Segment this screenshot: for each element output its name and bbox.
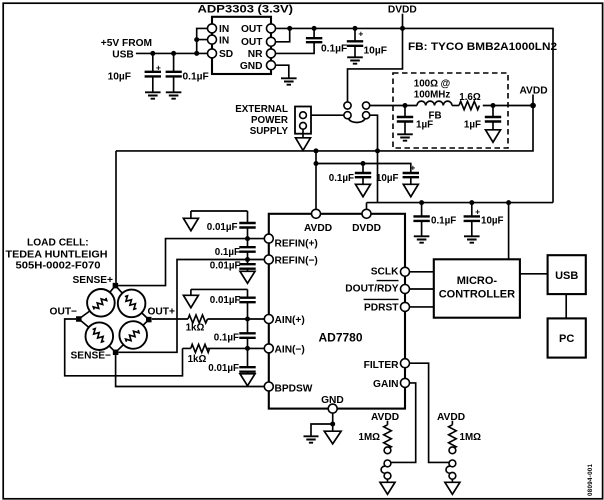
regulator U1 ADP3303 <box>198 4 294 74</box>
resistor R5 1Mohm <box>449 421 482 449</box>
bridge circle TL <box>87 289 115 317</box>
pin IN1 <box>208 24 217 33</box>
svg-text:DOUT/RDY: DOUT/RDY <box>345 284 398 295</box>
wire DVDD rail <box>275 28 553 202</box>
connector J1 external power <box>295 107 311 134</box>
svg-text:10µF: 10µF <box>108 72 131 83</box>
wire GAIN run <box>391 383 416 463</box>
junction dot AVDD rail left <box>314 148 319 153</box>
wire link bottom to AVDD rail <box>370 115 378 202</box>
wire micro power feed <box>508 203 510 260</box>
junction dot C5 <box>491 103 496 108</box>
capacitor C14 0.1uF ain diff <box>214 319 256 348</box>
junction dot C6 tap <box>361 161 366 166</box>
capacitor C1 10uF <box>108 53 161 91</box>
ground C13 triangle <box>183 295 198 307</box>
wire OUT2 join <box>275 28 290 41</box>
svg-text:USB: USB <box>112 50 134 61</box>
pin OUT2 <box>267 37 276 46</box>
ground C4 bars <box>397 134 413 140</box>
svg-text:FB: TYCO BMB2A1000LN2: FB: TYCO BMB2A1000LN2 <box>408 41 557 53</box>
ferrite bead FB <box>414 79 452 122</box>
wire GND pin down <box>332 413 334 431</box>
svg-text:0.1µF: 0.1µF <box>329 173 354 184</box>
svg-text:SCLK: SCLK <box>371 266 399 277</box>
pin SD <box>208 49 217 58</box>
wire right link to triangle <box>451 479 453 482</box>
wire J1 top to link <box>311 114 344 116</box>
wire SENSE- to BPDSW <box>116 355 265 386</box>
svg-text:DVDD: DVDD <box>352 223 381 234</box>
svg-text:1µF: 1µF <box>416 120 433 131</box>
mcu U3 MICRO-CONTROLLER <box>434 259 520 317</box>
ground C9 bars <box>464 236 480 242</box>
svg-text:OUT+: OUT+ <box>148 307 176 318</box>
svg-text:SENSE+: SENSE+ <box>73 275 114 286</box>
wire SCLK <box>409 271 434 273</box>
node EXTERNAL POWER SUPPLY label <box>235 104 288 137</box>
junction dot C9 tap <box>469 200 474 205</box>
svg-text:EXTERNAL: EXTERNAL <box>235 104 288 115</box>
svg-text:GAIN: GAIN <box>373 379 398 390</box>
wire +5V feed to SD <box>136 52 208 54</box>
pin SCLK <box>401 267 410 276</box>
svg-text:1.6Ω: 1.6Ω <box>459 92 481 103</box>
svg-text:REFIN(+): REFIN(+) <box>275 239 318 250</box>
wire AVDD decoupling line <box>316 164 411 173</box>
svg-text:+: + <box>475 206 480 216</box>
svg-text:TEDEA HUNTLEIGH: TEDEA HUNTLEIGH <box>6 249 108 260</box>
svg-text:OUT: OUT <box>241 24 263 35</box>
svg-text:+5V FROM: +5V FROM <box>101 38 152 49</box>
svg-text:08094-001: 08094-001 <box>587 463 594 496</box>
resistor R2 1k <box>188 344 210 364</box>
wire USB to PC <box>565 294 567 318</box>
wire excitation top to AVDD rail <box>115 151 117 283</box>
ground C12 triangle <box>240 271 255 283</box>
wire ADP GND to ground <box>275 65 289 78</box>
svg-text:0.01µF: 0.01µF <box>210 260 241 271</box>
pin DVDD <box>362 209 371 218</box>
pin BPDSW <box>264 382 273 391</box>
resistor R4 1Mohm <box>359 421 392 449</box>
svg-text:10µF: 10µF <box>376 173 399 184</box>
wire DVDD distribution line <box>367 202 554 204</box>
junction dot REFIN- <box>245 257 250 262</box>
bridge circle TR <box>118 290 146 318</box>
capacitor C15 0.01uF ain- to gnd <box>208 348 255 374</box>
svg-text:FILTER: FILTER <box>364 360 400 371</box>
node top bridge <box>113 283 119 289</box>
svg-text:+: + <box>358 29 363 39</box>
junction dot AIN- <box>245 346 250 351</box>
pin REFIN+ <box>264 234 273 243</box>
svg-text:SUPPLY: SUPPLY <box>250 126 289 137</box>
capacitor C11 0.1uF refin diff <box>215 239 256 260</box>
ground C15 triangle <box>240 374 255 386</box>
svg-text:NR: NR <box>248 49 263 60</box>
link LK1 pins <box>344 102 370 123</box>
svg-text:SENSE−: SENSE− <box>71 351 112 362</box>
svg-text:IN: IN <box>219 35 229 46</box>
svg-text:USB: USB <box>555 270 578 282</box>
svg-text:0.01µF: 0.01µF <box>208 363 239 374</box>
svg-text:AIN(+): AIN(+) <box>275 315 305 326</box>
capacitor C10 0.01uF refin+ to gnd <box>191 211 256 239</box>
svg-text:ADP3303 (3.3V): ADP3303 (3.3V) <box>198 4 294 16</box>
junction dot C4 <box>403 103 408 108</box>
wire left link to triangle <box>387 479 389 482</box>
junction dot C3 <box>353 26 358 31</box>
pin IN2 <box>208 35 217 44</box>
node +5V FROM USB label <box>101 38 152 61</box>
svg-text:100MHz: 100MHz <box>414 90 451 101</box>
svg-text:0.01µF: 0.01µF <box>207 222 238 233</box>
ground C3 bars <box>347 57 363 63</box>
svg-text:GND: GND <box>240 61 263 72</box>
svg-text:100Ω @: 100Ω @ <box>414 79 450 90</box>
ground C6 triangle <box>356 184 371 196</box>
svg-text:MICRO-: MICRO- <box>457 275 498 287</box>
junction dot NR cap <box>312 26 317 31</box>
svg-text:AVDD: AVDD <box>304 223 332 234</box>
bridge circle BL <box>86 322 114 350</box>
svg-text:CONTROLLER: CONTROLLER <box>439 289 515 301</box>
svg-text:AVDD: AVDD <box>437 412 465 423</box>
interface USB box <box>548 255 586 294</box>
svg-text:1MΩ: 1MΩ <box>359 432 381 443</box>
pin FILTER <box>401 359 410 368</box>
svg-text:10µF: 10µF <box>364 46 387 57</box>
junction dot AIN+ <box>245 317 250 322</box>
link left pins and switch <box>381 447 391 479</box>
wire SENSE+ to REFIN+ <box>118 239 264 286</box>
filter box dashed <box>393 73 508 148</box>
wire GND left branch <box>311 424 333 436</box>
svg-text:OUT−: OUT− <box>50 307 78 318</box>
bridge circle BR <box>119 321 147 349</box>
capacitor C13 0.01uF ain+ to gnd <box>191 289 256 319</box>
svg-text:505H-0002-F070: 505H-0002-F070 <box>16 260 101 271</box>
ground C1 bars <box>145 92 161 98</box>
junction dot REFIN+ <box>245 236 250 241</box>
svg-text:AVDD: AVDD <box>371 412 399 423</box>
svg-text:PC: PC <box>559 333 574 345</box>
junction dot DVDD rail <box>400 26 405 31</box>
junction dot C2 tap <box>171 51 176 56</box>
capacitor C9 10uF <box>464 203 504 236</box>
svg-text:1MΩ: 1MΩ <box>460 432 482 443</box>
capacitor C2 0.1uF <box>166 53 209 91</box>
pin OUT1 <box>267 24 276 33</box>
wire DVDD pin jog <box>366 203 368 210</box>
pin AIN+ <box>264 315 273 324</box>
junction dot AVDD <box>530 103 536 109</box>
svg-text:PDRST: PDRST <box>364 302 399 313</box>
junction dot IN2 branch <box>194 37 199 42</box>
capacitor C6 0.1uF <box>329 164 371 185</box>
wire DOUT <box>409 288 434 290</box>
wire FILTER run <box>409 363 449 462</box>
pin GAIN <box>401 378 410 387</box>
ground C5 triangle <box>486 130 501 142</box>
wire DVDD stub and link feed <box>348 14 403 102</box>
svg-text:IN: IN <box>219 24 229 35</box>
svg-text:0.01µF: 0.01µF <box>210 295 241 306</box>
capacitor NR 0.1uF <box>306 38 347 54</box>
node LOAD CELL label <box>6 238 108 272</box>
svg-text:1kΩ: 1kΩ <box>186 323 205 334</box>
node bottom bridge <box>113 350 119 356</box>
svg-text:0.1µF: 0.1µF <box>183 72 209 83</box>
svg-text:+: + <box>156 63 161 73</box>
svg-text:AIN(−): AIN(−) <box>275 345 305 356</box>
wire J1 bottom to triangle <box>302 129 304 138</box>
ground GND bars <box>304 436 319 442</box>
pin GND <box>328 404 337 413</box>
svg-text:1µF: 1µF <box>464 120 481 131</box>
wire IN branch vertical <box>197 28 208 53</box>
capacitor C5 1uF right <box>464 106 501 131</box>
ground C8 bars <box>414 236 430 242</box>
wire REFIN- run <box>118 260 264 353</box>
pin DOUT <box>401 285 410 294</box>
link right pins and switch <box>446 447 456 479</box>
adc U2 AD7780 <box>269 214 405 409</box>
svg-text:0.1µF: 0.1µF <box>214 332 239 343</box>
pin AIN- <box>264 344 273 353</box>
svg-text:AD7780: AD7780 <box>318 331 362 345</box>
junction dot OUT2 <box>287 26 292 31</box>
svg-text:0.1µF: 0.1µF <box>215 247 240 258</box>
svg-text:OUT: OUT <box>241 37 263 48</box>
svg-text:BPDSW: BPDSW <box>275 384 313 395</box>
node left bridge <box>76 316 82 322</box>
pin GND <box>267 61 276 70</box>
wire mcu to USB <box>520 273 548 275</box>
wire bridge stubs <box>79 286 149 353</box>
resistor R3 1.6ohm <box>459 92 481 110</box>
ground C2 bars <box>166 92 182 98</box>
junction dot C1 tap <box>150 51 155 56</box>
capacitor C8 0.1uF <box>413 203 456 236</box>
capacitor C12 0.01uF refin- to gnd <box>210 260 256 272</box>
junction dot IN branch <box>194 51 199 56</box>
wire FB to resistor <box>452 105 459 107</box>
wire AVDD main rail <box>116 106 533 151</box>
computer PC box <box>548 318 586 357</box>
pin AVDD <box>312 209 321 218</box>
svg-text:POWER: POWER <box>251 115 288 126</box>
svg-text:REFIN(−): REFIN(−) <box>275 256 318 267</box>
ground C10 triangle <box>183 218 198 230</box>
junction dot micro feed <box>506 200 511 205</box>
ground GND triangle <box>324 431 341 444</box>
ground ADP3303 bars <box>281 78 297 84</box>
ground left triangle <box>380 482 395 494</box>
pin REFIN- <box>264 255 273 264</box>
wire OUT+ to AIN+ <box>152 318 265 320</box>
ground C7 triangle <box>403 184 418 196</box>
junction dot GND branch <box>330 422 335 427</box>
pin PDRST <box>401 302 410 311</box>
capacitor C7 10uF <box>376 162 419 184</box>
svg-text:0.1µF: 0.1µF <box>431 216 456 227</box>
capacitor C4 1uF left <box>397 106 433 134</box>
svg-text:1kΩ: 1kΩ <box>188 354 207 365</box>
power triangle external supply <box>296 138 311 151</box>
node right bridge <box>146 317 152 323</box>
capacitor C3 10uF rail <box>347 28 387 56</box>
wire AVDD pin branch <box>315 151 317 210</box>
wire link to FB input <box>370 105 417 107</box>
ground right triangle <box>445 482 460 494</box>
pin NR <box>267 49 276 58</box>
junction dot AVDD rail right <box>375 148 380 153</box>
wire AVDD stub <box>532 95 534 106</box>
svg-text:SD: SD <box>219 49 233 60</box>
svg-text:+: + <box>410 162 415 172</box>
junction dot decouple tap <box>314 161 319 166</box>
junction dot C8 tap <box>419 200 424 205</box>
wire PDRST <box>409 306 434 308</box>
wire NR cap link <box>275 28 314 53</box>
svg-text:LOAD CELL:: LOAD CELL: <box>27 238 89 249</box>
wire OUT- to AIN- <box>65 319 265 376</box>
svg-text:0.1µF: 0.1µF <box>321 44 347 55</box>
wire resistor to AVDD <box>483 105 533 107</box>
resistor R1 1k <box>186 315 208 334</box>
svg-text:10µF: 10µF <box>481 216 504 227</box>
